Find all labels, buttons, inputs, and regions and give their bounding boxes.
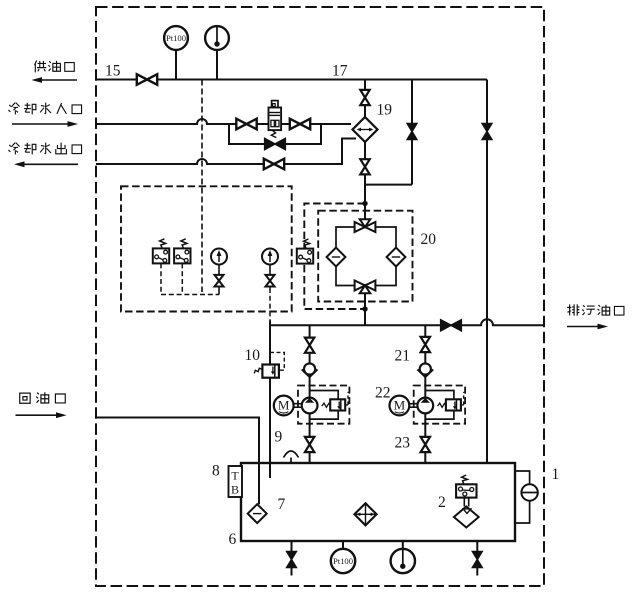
instrument panel dashed box	[121, 186, 292, 311]
valve drain filled bowtie	[441, 320, 462, 331]
valve pump2 suction hourglass	[421, 337, 430, 352]
wire: dashed signal from S1	[160, 263, 162, 294]
svg-text:B: B	[231, 483, 239, 497]
level switch 2 assembly	[454, 475, 479, 528]
valve pump1 suction hourglass	[305, 338, 314, 353]
wire: cooling water inlet line	[96, 119, 351, 124]
thermometer top stem	[216, 50, 218, 80]
enclosure dashed border	[96, 7, 544, 586]
cooler 19 diamond	[353, 117, 378, 142]
check valve right diamond	[387, 248, 406, 267]
wire: cooling water outlet line	[96, 139, 356, 165]
box 20 inner dashed box	[318, 211, 412, 302]
pressure reducing valve on inlet	[269, 101, 282, 138]
breather 9 arc	[284, 451, 299, 463]
valve outlet bowtie	[264, 159, 284, 170]
valve pump2 discharge hourglass	[421, 437, 430, 452]
three-way valve bottom of bridge	[355, 281, 376, 294]
pressure switch S3 on box 20 edge	[297, 239, 313, 264]
svg-text:22: 22	[375, 385, 391, 402]
wire: pump 1 branch line	[309, 325, 311, 463]
svg-text:6: 6	[229, 531, 237, 548]
node: junction dot top of box 20	[362, 201, 367, 206]
valve 15 bowtie	[137, 74, 157, 85]
wire: dashed sense line from G2 valve down	[269, 288, 271, 321]
port label 冷却水出口	[8, 143, 81, 155]
valve right-drop filled hourglass	[482, 124, 492, 140]
svg-text:10: 10	[245, 347, 261, 364]
port label 回油口	[20, 392, 66, 403]
level gauge 1	[515, 471, 538, 523]
wire: cooler bypass with shutoff	[365, 80, 412, 185]
gauge Pt100 top stem	[175, 50, 177, 80]
tank drain valve left stem	[291, 541, 293, 576]
svg-text:20: 20	[421, 231, 437, 248]
port arrow supply (left)	[32, 77, 78, 83]
svg-text:Pt100: Pt100	[333, 556, 353, 566]
pressure switch S2	[174, 239, 190, 264]
valve inlet left bowtie	[236, 119, 256, 130]
tank drain valve right stem	[476, 541, 478, 576]
svg-text:T: T	[231, 469, 239, 483]
motor-pump unit 1	[274, 386, 350, 424]
svg-text:1: 1	[552, 466, 560, 483]
port arrow return (right)	[16, 412, 67, 418]
return diffuser diamond	[248, 504, 267, 523]
port arrow drain (right)	[567, 324, 608, 330]
port arrow cooling inlet (right)	[12, 121, 78, 127]
gauge Pt100 bottom	[331, 549, 355, 573]
valve below cooler hourglass	[360, 159, 369, 174]
node: junction dot bottom of box 20	[362, 306, 367, 311]
wire: supply line 15-17	[96, 79, 487, 81]
wire: drain manifold line	[270, 319, 544, 325]
gauge G1 with arrow	[211, 249, 227, 265]
valve above cooler hourglass	[360, 90, 369, 105]
gauge Pt100 bottom stem	[342, 541, 344, 549]
thermometer bottom stem	[402, 541, 404, 549]
pressure switch S1	[153, 239, 169, 264]
wire: dashed signal from S2	[181, 263, 183, 294]
wire: pump 2 branch line	[424, 325, 426, 463]
tank drain valve left filled hourglass	[287, 552, 297, 568]
valve pump1 discharge hourglass	[305, 437, 314, 452]
ball check valve pump1	[302, 363, 318, 377]
thermometer top	[205, 26, 229, 50]
wire: center oil line through cooler	[364, 80, 366, 326]
wire: inlet bypass loop	[229, 124, 321, 144]
valve gauge G2 isolator	[266, 275, 275, 287]
wire: return oil line	[96, 418, 259, 505]
svg-text:2: 2	[438, 494, 446, 511]
tank 6	[241, 463, 515, 541]
svg-text:Pt100: Pt100	[166, 33, 186, 43]
svg-text:7: 7	[278, 496, 286, 513]
wire: return line inside tank	[258, 463, 260, 504]
port label 排污油口	[567, 304, 624, 315]
wire: bridge loop in box 20	[336, 227, 396, 286]
valve inlet right bowtie	[290, 119, 310, 130]
port label 供油口	[34, 60, 74, 72]
tank drain valve right filled hourglass	[473, 552, 483, 568]
valve bypass filled bowtie	[265, 139, 286, 150]
valve cooler-bypass filled hourglass	[407, 124, 417, 140]
box 20 outer dashed partial box	[304, 204, 365, 310]
port label 冷却水入口	[8, 103, 81, 115]
suction strainer diamond in tank	[354, 503, 376, 525]
wire: center sense dashed line	[201, 80, 203, 293]
wire: gauge G1 stem	[218, 265, 220, 295]
ball check valve pump2	[417, 363, 433, 377]
wire: gauge G2 stem	[269, 265, 271, 289]
svg-text:21: 21	[395, 348, 411, 365]
wire: collector outlet inside tank	[269, 463, 271, 478]
svg-text:15: 15	[105, 63, 121, 80]
svg-text:9: 9	[275, 429, 283, 446]
valve 10 back-pressure valve	[254, 352, 284, 377]
wire: right supply drop to tank	[486, 80, 488, 464]
gauge G2 with arrow	[262, 249, 278, 265]
thermometer bottom	[391, 549, 415, 573]
svg-text:8: 8	[212, 463, 220, 480]
TB sensor box 8	[229, 466, 243, 497]
three-way valve top of bridge	[355, 219, 376, 232]
wire: G2 line solid tail	[269, 321, 271, 326]
svg-text:23: 23	[395, 435, 411, 452]
svg-text:17: 17	[332, 63, 348, 80]
check valve left diamond	[327, 248, 346, 267]
svg-text:19: 19	[377, 102, 393, 119]
wire: collector drop through valve 10	[269, 325, 271, 478]
port arrow cooling outlet (left)	[14, 161, 78, 167]
valve gauge G1 isolator	[215, 275, 224, 287]
gauge Pt100 top	[164, 26, 188, 50]
motor-pump unit 2	[390, 386, 466, 424]
wire: dashed signal horizontal run	[161, 294, 219, 296]
